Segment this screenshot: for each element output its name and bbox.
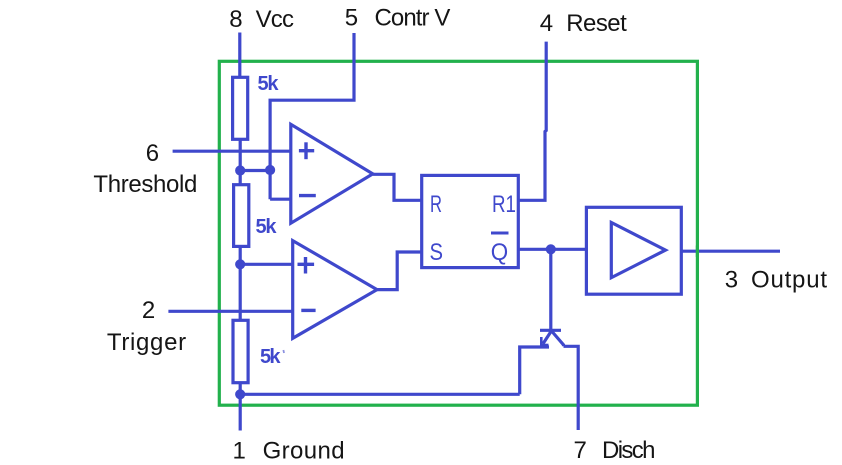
wire buffer to pin 3 Output: [681, 250, 780, 253]
flip-flop U3 SR latch box: [422, 175, 519, 267]
wire R2 to R3: [239, 246, 242, 322]
svg-text:5: 5: [345, 4, 358, 31]
svg-text:Q: Q: [491, 239, 508, 266]
wire collector to pin 7 Disch: [564, 346, 579, 430]
ground rail: [240, 393, 520, 396]
wire R3 to ground pin: [239, 382, 242, 431]
op-amp U2 trigger comparator: [293, 241, 377, 339]
pin 6 Threshold lead: [173, 150, 292, 153]
node divider top junction: [237, 167, 244, 174]
node ground junction: [237, 391, 244, 398]
transistor Q1 collector: [552, 332, 564, 347]
svg-text:R: R: [430, 191, 442, 218]
IC boundary box: [219, 61, 697, 405]
resistor R3: [233, 320, 248, 382]
svg-text:5k: 5k: [258, 73, 280, 95]
wire U1 inverting input: [270, 198, 291, 201]
svg-text:S: S: [430, 239, 444, 266]
svg-text:Reset: Reset: [566, 10, 627, 37]
svg-text:5k: 5k: [260, 346, 281, 368]
svg-text:6: 6: [146, 140, 159, 167]
svg-text:3: 3: [725, 267, 738, 294]
pin 8 Vcc lead: [238, 33, 241, 79]
pin 2 Trigger lead: [168, 310, 293, 313]
output buffer U4 box: [586, 207, 681, 294]
wire U1 output to latch R: [373, 174, 422, 200]
IC boundary box segment over output wire: [696, 246, 699, 258]
wire U2 output to latch S: [377, 252, 422, 290]
wire Q-bar node to transistor base: [549, 249, 552, 332]
op-amp U1 threshold comparator: [291, 124, 373, 223]
pin 5 Contr V lead: [270, 33, 354, 199]
svg-text:Disch: Disch: [602, 437, 656, 464]
resistor R2: [234, 185, 249, 247]
svg-text:Contr V: Contr V: [375, 4, 451, 31]
wire divider mid to U2 non-inverting input: [240, 263, 293, 266]
node divider mid junction: [237, 261, 244, 268]
svg-text:Threshold: Threshold: [93, 171, 197, 198]
wire control node to divider: [240, 169, 270, 172]
svg-text:5k: 5k: [256, 216, 278, 238]
svg-text:Trigger: Trigger: [107, 329, 186, 356]
U2 inverting minus symbol: [301, 309, 315, 312]
wire R1 to R2: [239, 139, 242, 186]
svg-text:R1: R1: [492, 191, 516, 218]
U1 non-inverting plus symbol: [299, 149, 314, 152]
U1 inverting minus symbol: [299, 194, 316, 197]
wire latch R1 to pin 4 Reset: [518, 42, 546, 201]
svg-text:1: 1: [233, 437, 246, 464]
wire latch Q-bar to output buffer: [518, 248, 586, 251]
node Q-bar branch junction: [547, 246, 554, 253]
svg-text:8: 8: [229, 6, 242, 33]
transistor Q1 emitter: [543, 332, 551, 344]
svg-text:Output: Output: [751, 267, 827, 294]
svg-text:Ground: Ground: [263, 437, 345, 464]
svg-text:2: 2: [142, 297, 155, 324]
wire emitter to ground rail: [520, 347, 549, 394]
output buffer triangle: [611, 223, 665, 278]
svg-text:7: 7: [574, 437, 587, 464]
node control junction: [267, 167, 274, 174]
svg-text:4: 4: [540, 10, 553, 37]
resistor R1: [233, 77, 248, 139]
svg-text:Vcc: Vcc: [256, 6, 294, 33]
transistor Q1 base bar: [540, 329, 561, 332]
U2 non-inverting plus symbol: [298, 263, 315, 266]
